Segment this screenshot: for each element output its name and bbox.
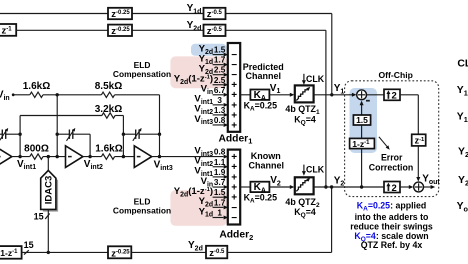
junction on Y1 row at T1 vertical xyxy=(330,93,333,96)
bus width 15 slash on bottom line xyxy=(24,250,29,254)
svg-text:Vin: Vin xyxy=(0,90,10,102)
wire: IDAC3 output up to integrator row xyxy=(47,157,49,171)
svg-text:1.3: 1.3 xyxy=(214,106,226,115)
svg-text:V2: V2 xyxy=(270,175,281,187)
svg-text:KA=0.25: KA=0.25 xyxy=(244,192,278,204)
Adder1 input row 4: 2.5 xyxy=(213,84,224,86)
upsampler x2 (channel 2) xyxy=(384,182,400,193)
wire: V_int3 column down to integrator row xyxy=(159,134,161,156)
wire: T1 from z^-0.5 to corner xyxy=(226,13,332,15)
svg-text:Y2: Y2 xyxy=(458,175,468,188)
svg-text:3.2kΩ: 3.2kΩ xyxy=(95,104,122,115)
wire: T2 from z^-0.5 to corner xyxy=(226,29,326,31)
junction Y2 row at error-correction tap xyxy=(360,185,363,188)
svg-text:Y1d: Y1d xyxy=(187,3,202,15)
Adder1 input row 1: 1.5 xyxy=(213,54,224,56)
svg-text:1.7: 1.7 xyxy=(214,56,226,65)
Adder2 input row 3: 1.9 xyxy=(213,176,224,178)
Adder2 input row 6: 1.7 xyxy=(213,206,224,208)
capacitor C2 (integrator2 feedback, tunable) xyxy=(68,130,70,139)
svg-text:into the adders to: into the adders to xyxy=(355,212,429,222)
delay box z^-0.5 on T2 xyxy=(204,25,226,36)
highlight: pink ELD compensation band at Adder1 inputs xyxy=(170,56,226,88)
svg-text:Y2d: Y2d xyxy=(188,240,203,252)
wire: cap2 row from X2 column xyxy=(57,133,69,135)
op-amp A1 (integrator 1, clipped at left edge) xyxy=(0,146,12,168)
wire: C3 to V_int3 column xyxy=(139,133,159,135)
svg-text:CLK: CLK xyxy=(306,74,325,84)
wire: Adder1 output to K_A1 xyxy=(240,94,250,96)
Adder1 input row 8: 0.8 xyxy=(213,124,224,126)
Adder1 input row 7: 1.3 xyxy=(213,114,224,116)
svg-text:CLK: CLK xyxy=(457,58,468,69)
svg-text:1.7: 1.7 xyxy=(214,198,226,207)
wire: vertical V_int1 column xyxy=(19,116,21,135)
bus width 15 slash near IDAC3 xyxy=(45,214,50,220)
svg-text:0.8: 0.8 xyxy=(214,116,226,125)
svg-text:2.5: 2.5 xyxy=(214,76,226,85)
junction cap3 row on opamp3 column xyxy=(122,133,125,136)
Adder2 input row 5: 1.5 xyxy=(213,196,224,198)
gain block 1.5 xyxy=(353,115,370,125)
svg-text:Channel: Channel xyxy=(249,161,285,171)
wire: z^-1 down into S2 xyxy=(417,146,419,179)
junction node X2 on V_in row xyxy=(56,93,59,96)
off-chip dashed boundary box xyxy=(345,81,439,197)
wire: T2 vertical down to Y2 node (crosses Y1 row) xyxy=(325,30,327,187)
wire: QTZ2 output Y2 to off-chip upsampler xyxy=(314,186,384,188)
svg-text:Correction: Correction xyxy=(369,162,413,172)
wire: top feedback line T1 (Y1 delay path) left segment xyxy=(0,13,108,15)
DAC IDAC3 (pentagon symbol with shadow) xyxy=(43,173,58,212)
wire: V_int1 to 800 ohm xyxy=(12,156,30,158)
delay box z^-0.25 on T1 xyxy=(108,8,132,19)
wire: upsampler2 into S2 xyxy=(400,186,411,188)
wire: Adder2 output to K_A2 xyxy=(240,186,250,188)
wire: bottom line from 1-z^-1 to z^-0.25 xyxy=(22,251,108,253)
capacitor C3 (integrator3 feedback, tunable) xyxy=(135,130,137,139)
svg-text:1.5: 1.5 xyxy=(214,188,226,197)
junction C3/V_int3 column xyxy=(158,133,161,136)
svg-text:Y2: Y2 xyxy=(334,175,345,187)
wire: between 1.5 and 1-z^-1 xyxy=(361,125,363,138)
Adder2 input row 4: 3.7 xyxy=(213,186,224,188)
junction X2 column at integrator row xyxy=(56,155,59,158)
wire: error chain vertical up into S1 xyxy=(361,103,363,115)
wire: error tap from Y2 row up into 1-z^-1 xyxy=(361,149,363,187)
delay box z^-0.25 bottom xyxy=(108,246,131,258)
highlight: pink ELD compensation band at Adder2 inputs xyxy=(170,190,227,226)
svg-text:1.9: 1.9 xyxy=(214,168,226,177)
svg-text:Compensation: Compensation xyxy=(113,206,171,216)
wire: R8.5k to corner, down to V_int3 node xyxy=(115,94,160,96)
wire: K_A1 to QTZ1 xyxy=(269,94,290,96)
wire: S1 output to upsampler 1 xyxy=(367,94,385,96)
svg-text:6.7: 6.7 xyxy=(214,86,226,95)
svg-text:KQ=4: KQ=4 xyxy=(294,207,316,219)
wire: K_A2 to QTZ2 xyxy=(269,186,290,188)
block 1-z^-1 (error correction) xyxy=(350,138,375,148)
junction V_int2 node xyxy=(88,155,91,158)
adder Adder2 (summing block) xyxy=(228,150,240,225)
svg-text:QTZ Ref. by 4x: QTZ Ref. by 4x xyxy=(361,240,423,250)
junction cap2 row on X2 column xyxy=(56,133,59,136)
wire: cap3 row from opamp3 input column xyxy=(123,133,135,135)
junction C1/V_int1 column xyxy=(18,133,21,136)
label Error Correction with pointer xyxy=(379,137,388,147)
wire: bottom line to corner below Y2 xyxy=(227,251,331,253)
svg-text:Y1: Y1 xyxy=(457,85,468,98)
wire: R1.6k to node X2 xyxy=(43,94,101,96)
svg-text:Yout: Yout xyxy=(422,174,440,186)
highlight: blue band behind error-correction chain (1.5, 1-z^-1) xyxy=(350,88,378,153)
svg-text:2.5: 2.5 xyxy=(214,66,226,75)
svg-text:0.8: 0.8 xyxy=(214,148,226,157)
svg-text:IDAC3: IDAC3 xyxy=(44,176,55,205)
svg-text:KA=0.25: applied: KA=0.25: applied xyxy=(357,200,427,212)
svg-text:Channel: Channel xyxy=(246,71,282,81)
svg-text:Y2d: Y2d xyxy=(187,20,202,32)
wire: T1 vertical down to Y1 node xyxy=(331,14,333,95)
Adder1 input row 3: 2.5 xyxy=(213,74,224,76)
svg-text:KQ=4: KQ=4 xyxy=(294,114,316,126)
svg-text:Compensation: Compensation xyxy=(113,69,171,79)
wire: T2 between z^-0.25 and z^-0.5 xyxy=(132,29,204,31)
svg-text:Y2: Y2 xyxy=(458,147,468,160)
junction V_int1 node xyxy=(18,155,21,158)
svg-text:3.7: 3.7 xyxy=(214,178,226,187)
wire: upsampler1 to corner and down to z^-1 xyxy=(400,94,418,96)
svg-text:2: 2 xyxy=(391,183,396,194)
wire: top feedback line T2 left segment xyxy=(16,29,108,31)
capacitor C1 (integrator1 feedback, tunable) xyxy=(0,133,2,135)
Adder2 input row 2: 1.1 xyxy=(213,166,224,168)
svg-text:Vint1: Vint1 xyxy=(17,159,36,171)
summing node S2 xyxy=(414,182,424,192)
svg-text:Y1: Y1 xyxy=(334,83,345,95)
wire: 1.6k to opamp3 input node xyxy=(115,156,135,158)
junction Y2 node to bottom line xyxy=(330,185,333,188)
Adder1 input row 2: 1.7 xyxy=(213,64,224,66)
op-amp A2 (integrator 2) xyxy=(66,146,83,168)
wire: V_int2 to 1.6k xyxy=(83,156,102,158)
svg-text:8.5kΩ: 8.5kΩ xyxy=(95,81,122,92)
delay box z^-0.5 bottom xyxy=(206,246,227,258)
wire: X2 column down to 800 ohm node xyxy=(56,134,58,156)
svg-text:Y1: Y1 xyxy=(457,111,468,124)
svg-text:1.5: 1.5 xyxy=(214,46,226,55)
wire: IDAC3 input from bottom line xyxy=(47,209,49,252)
wire: bottom line z^-0.25 to z^-0.5 xyxy=(131,251,206,253)
svg-text:+: + xyxy=(231,120,237,131)
svg-text:1.1: 1.1 xyxy=(214,158,226,167)
wire: vertical node X2 column (V_in row to cap2 row) xyxy=(56,95,58,134)
Adder2 input row 7: 1 xyxy=(213,217,224,219)
svg-text:3: 3 xyxy=(217,96,222,105)
svg-text:Off-Chip: Off-Chip xyxy=(379,70,413,80)
wire: V_in row to R 1.6k xyxy=(14,94,29,96)
junction V_int3 node xyxy=(158,155,161,158)
junction on bottom line at IDAC3 column xyxy=(47,251,50,254)
wire: opamp3 input column down to integrator row xyxy=(122,134,124,156)
wire: C1 to V_int1 column xyxy=(6,133,20,135)
summing node S1 with minus input xyxy=(357,90,367,100)
svg-text:−: − xyxy=(231,213,237,224)
wire: V_int3 long wire to Adder2 input row 1 xyxy=(152,156,224,158)
wire: 800 ohm to opamp2 xyxy=(43,156,66,158)
delay z^-1 (off-chip) xyxy=(412,134,426,146)
upsampler x2 (channel 1) xyxy=(384,89,400,100)
wire: 3.2k line to corner, down to opamp3 input xyxy=(115,115,123,117)
wire: V_int1 column down to integrator row xyxy=(19,134,21,156)
gain block K_A (channel 1) xyxy=(250,90,269,100)
block 1-z^-1 (bottom left, clipped) xyxy=(0,246,22,259)
svg-text:1.6kΩ: 1.6kΩ xyxy=(23,81,50,92)
gain block K_A (channel 2) xyxy=(250,182,269,192)
svg-text:CLK: CLK xyxy=(306,165,325,175)
delay box z^-0.25 on T2 xyxy=(108,25,132,36)
clock arrow CLK into QTZ2 xyxy=(303,165,305,172)
svg-text:Yout: Yout xyxy=(457,201,468,214)
junction on Y2 row at T2 vertical xyxy=(324,185,327,188)
svg-text:1.6kΩ: 1.6kΩ xyxy=(95,143,122,154)
svg-text:Vint2: Vint2 xyxy=(84,159,103,171)
svg-text:KA=0.25: KA=0.25 xyxy=(244,100,278,112)
svg-text:800Ω: 800Ω xyxy=(24,143,49,154)
Adder1 input row 5: 6.7 xyxy=(213,94,224,96)
svg-text:1: 1 xyxy=(217,209,222,218)
delay box z^-0.5 on T1 xyxy=(204,8,226,19)
clock arrow CLK into QTZ1 xyxy=(303,74,305,81)
svg-text:Adder2: Adder2 xyxy=(219,230,253,242)
Adder1 input row 6: 3 xyxy=(213,104,224,106)
adder Adder1 (summing block) xyxy=(228,43,240,132)
svg-text:15: 15 xyxy=(24,240,34,250)
svg-text:Error: Error xyxy=(381,153,403,163)
junction opamp3 input node xyxy=(122,155,125,158)
quantizer QTZ1 (4b) xyxy=(295,85,314,102)
svg-text:Adder1: Adder1 xyxy=(218,134,252,146)
wire: 3.2k feed line from V_int1 column xyxy=(20,115,102,117)
wire: T1 between z^-0.25 and z^-0.5 xyxy=(132,13,204,15)
highlight: blue band behind Y_2d 1.5 input of Adder1 xyxy=(191,44,227,56)
svg-text:Vint3: Vint3 xyxy=(154,160,173,172)
output arrow Y_out xyxy=(424,186,432,188)
svg-text:2: 2 xyxy=(391,91,396,102)
quantizer QTZ2 (4b) xyxy=(295,177,314,194)
svg-text:V1: V1 xyxy=(270,83,281,95)
svg-text:1.5: 1.5 xyxy=(356,115,368,125)
wire: QTZ1 output Y1 to off-chip sum xyxy=(314,94,354,96)
wire: vertical from bottom line up to Y2 node xyxy=(331,187,333,252)
op-amp A3 (integrator 3) xyxy=(134,146,151,168)
junction IDAC3 tap node xyxy=(47,155,50,158)
delay box z^-1 top-left xyxy=(0,24,16,36)
svg-text:15: 15 xyxy=(34,211,44,221)
wire: C2 to corner, down to V_int2 node xyxy=(73,133,90,135)
minus sign at S1 xyxy=(366,100,370,102)
